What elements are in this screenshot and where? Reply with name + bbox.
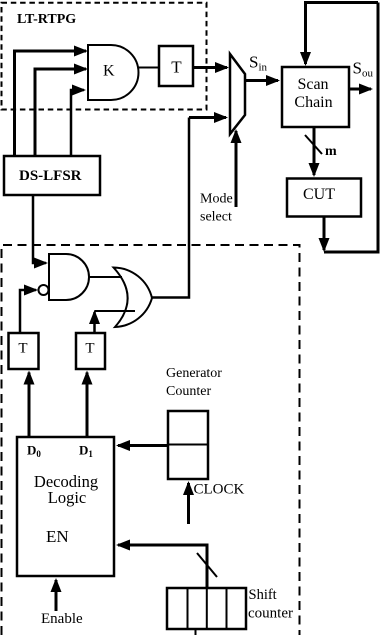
AND gate K — [88, 45, 138, 100]
svg-text:DS-LFSR: DS-LFSR — [19, 168, 82, 184]
DS-LFSR box — [4, 156, 100, 195]
svg-text:counter: counter — [248, 606, 293, 622]
svg-text:CUT: CUT — [303, 186, 335, 203]
MUX trapezoid — [230, 54, 245, 134]
wire NAND output to OR — [89, 276, 122, 278]
Scan Chain box — [282, 67, 349, 127]
wire Decoding Logic D0 to T1 — [28, 373, 31, 437]
svg-text:Counter: Counter — [166, 384, 211, 399]
input bubble — [39, 285, 49, 295]
NAND-style gate with inverted input — [49, 254, 89, 300]
stub wire below shift counter — [195, 629, 197, 635]
wire Enable into Decoding Logic — [55, 580, 58, 611]
wire DS-LFSR to AND input 1 — [15, 51, 87, 156]
svg-text:EN: EN — [46, 527, 69, 546]
wire OR output to MUX input 2 — [151, 118, 189, 298]
svg-text:Enable: Enable — [41, 611, 83, 627]
OR gate — [114, 268, 153, 328]
wire DS-LFSR to AND input 2 — [35, 69, 86, 156]
svg-text:Scan: Scan — [297, 76, 328, 93]
wire shift counter to EN — [118, 545, 207, 588]
svg-text:Generator: Generator — [166, 366, 222, 381]
svg-text:T: T — [171, 58, 182, 77]
Decoding Logic box — [17, 437, 114, 576]
lower dashed box — [2, 245, 300, 635]
svg-text:T: T — [18, 341, 27, 357]
feedback wire right side — [324, 3, 378, 253]
wire MUX output Sin — [246, 79, 278, 82]
wire Decoding Logic D1 to T2 — [86, 373, 89, 437]
wire T2 to OR input — [93, 312, 96, 333]
Shift counter box — [167, 588, 246, 629]
feedback wire top into Scan Chain — [306, 3, 379, 65]
wire AND to T — [139, 67, 160, 69]
wire CUT output down — [323, 217, 326, 251]
svg-text:T: T — [85, 341, 94, 357]
wire OR lower input horizontal — [95, 310, 136, 312]
flip-flop T (top) — [159, 46, 193, 86]
bus m from Scan Chain to CUT — [313, 127, 316, 175]
svg-text:K: K — [103, 63, 115, 80]
wire CLOCK into Generator Counter — [187, 483, 190, 524]
bus slash m — [305, 135, 322, 154]
svg-text:m: m — [325, 144, 337, 159]
wire DS-LFSR to AND input 3 — [71, 90, 84, 156]
wire Generator Counter to Decoding Logic — [118, 444, 168, 447]
wire Scan Chain output Sou — [349, 88, 371, 91]
wire T to MUX input 1 — [193, 66, 227, 69]
wire DS-LFSR bottom to NAND input 1 — [33, 195, 46, 263]
Generator Counter box — [168, 411, 208, 479]
flip-flop T2 (lower) — [76, 333, 105, 369]
CUT box — [287, 179, 361, 217]
bus slash on EN wire — [197, 553, 217, 577]
svg-text:Mode: Mode — [200, 192, 233, 207]
svg-text:Shift: Shift — [249, 587, 277, 603]
svg-text:select: select — [200, 210, 232, 225]
wire mode select — [235, 131, 238, 207]
svg-text:Logic: Logic — [48, 488, 87, 507]
svg-text:LT-RTPG: LT-RTPG — [17, 12, 76, 27]
flip-flop T1 (lower left) — [9, 333, 39, 369]
svg-text:Chain: Chain — [294, 94, 332, 111]
LT-RTPG dashed box — [2, 3, 207, 110]
svg-text:CLOCK: CLOCK — [194, 482, 245, 498]
wire T1 to NAND bubble input — [20, 290, 36, 333]
